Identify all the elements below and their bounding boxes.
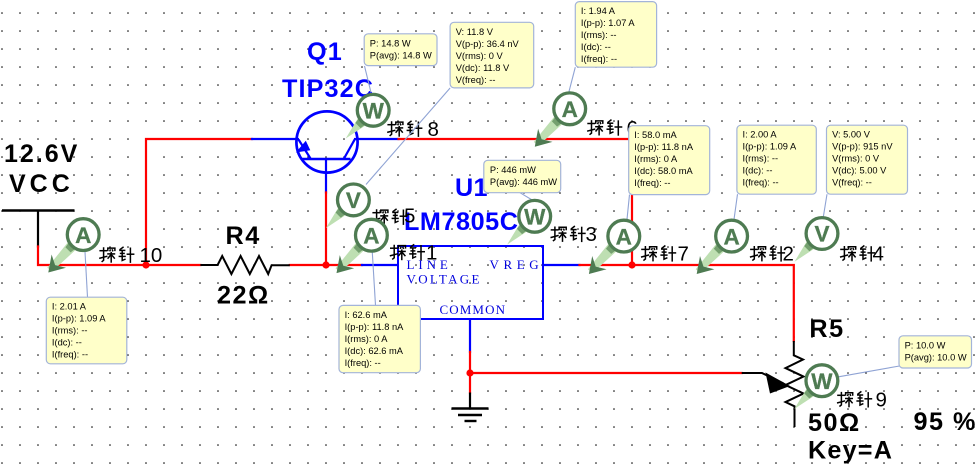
wire: Q1 emitter pin stub xyxy=(252,138,297,140)
node: VCC riser junction xyxy=(142,261,149,268)
leader probe 5 xyxy=(366,88,450,185)
svg-text:I(rms): --: I(rms): -- xyxy=(581,30,617,40)
box probe 2 current xyxy=(737,125,816,194)
leader probe 1 xyxy=(372,252,375,305)
leader probe 10 xyxy=(85,252,88,298)
svg-text:10: 10 xyxy=(140,244,163,267)
wire: Q1 base to rail junction xyxy=(325,193,327,266)
probe A (#6) xyxy=(534,93,586,147)
box probe 3 power xyxy=(484,160,561,192)
svg-text:V(freq): --: V(freq): -- xyxy=(832,178,872,188)
wire: VCC lead black xyxy=(37,212,39,247)
svg-text:R4: R4 xyxy=(226,222,261,250)
Q1 emitter arrow xyxy=(296,141,311,153)
leader probe 9 xyxy=(839,366,900,377)
svg-text:V(p-p): 915 nV: V(p-p): 915 nV xyxy=(832,142,893,152)
svg-text:W: W xyxy=(811,369,833,394)
probe A (#1) xyxy=(336,219,388,273)
node: Q1 base / R4 junction xyxy=(322,261,329,268)
svg-text:I: 2.00 A: I: 2.00 A xyxy=(743,130,778,140)
leader probe 6 xyxy=(569,67,575,91)
regulator U1 LM7805CT xyxy=(398,246,543,319)
probe W (#9) xyxy=(794,365,837,409)
wire: Q1 collector pin stub xyxy=(358,138,399,140)
svg-text:I(freq): --: I(freq): -- xyxy=(743,178,779,188)
svg-text:I(p-p): 1.09 A: I(p-p): 1.09 A xyxy=(743,142,798,152)
svg-text:9: 9 xyxy=(876,388,887,411)
svg-text:I: 2.01 A: I: 2.01 A xyxy=(52,302,87,312)
svg-text:V(p-p): 36.4 nV: V(p-p): 36.4 nV xyxy=(456,39,520,49)
svg-text:A: A xyxy=(562,97,578,122)
label probe 10 xyxy=(99,244,162,267)
box probe 6 current xyxy=(575,2,656,68)
svg-text:I(p-p): 11.8 nA: I(p-p): 11.8 nA xyxy=(345,322,405,332)
svg-text:I(dc): --: I(dc): -- xyxy=(52,338,82,348)
label probe 8 xyxy=(387,118,439,141)
svg-text:V(freq): --: V(freq): -- xyxy=(456,75,496,85)
potentiometer R5 xyxy=(742,341,804,427)
box probe 8 power xyxy=(364,34,437,66)
svg-text:5: 5 xyxy=(404,205,415,228)
box probe 5 voltage xyxy=(450,22,534,88)
svg-text:12.6V: 12.6V xyxy=(4,140,79,168)
svg-text:P(avg): 14.8 W: P(avg): 14.8 W xyxy=(370,50,432,60)
svg-text:A: A xyxy=(363,223,379,248)
svg-text:VOLTAGE: VOLTAGE xyxy=(407,272,482,287)
svg-text:W: W xyxy=(524,205,546,230)
svg-text:V(rms): 0 V: V(rms): 0 V xyxy=(832,154,880,164)
svg-text:4: 4 xyxy=(873,243,884,266)
svg-text:V(rms): 0 V: V(rms): 0 V xyxy=(456,51,504,61)
svg-text:V: 11.8 V: V: 11.8 V xyxy=(456,27,494,37)
svg-text:A: A xyxy=(616,224,632,249)
leader probe 7 xyxy=(627,195,630,220)
svg-text:3: 3 xyxy=(586,223,597,246)
svg-text:I(rms): --: I(rms): -- xyxy=(52,326,88,336)
R5 wiper arrow xyxy=(766,373,791,394)
wire: rail R4 to U1 LINE xyxy=(290,264,362,266)
wire: Q1 base pin stub xyxy=(325,174,327,193)
label probe 3 xyxy=(551,223,597,246)
svg-text:I(freq): --: I(freq): -- xyxy=(634,178,670,188)
svg-text:V: V xyxy=(814,222,829,247)
svg-text:P: 10.0 W: P: 10.0 W xyxy=(905,340,946,350)
wire: output rail to R5 corner xyxy=(580,265,794,341)
svg-text:I(p-p): 1.09 A: I(p-p): 1.09 A xyxy=(52,314,107,324)
svg-text:V: 5.00 V: V: 5.00 V xyxy=(832,130,871,140)
svg-text:50Ω: 50Ω xyxy=(808,409,861,437)
svg-text:P: 446 mW: P: 446 mW xyxy=(490,165,536,175)
node: output junction xyxy=(628,261,635,268)
wire: U1 LINE pin stub xyxy=(362,264,397,266)
box probe 1 current xyxy=(339,305,420,372)
node: common junction xyxy=(466,369,473,376)
label probe 4 xyxy=(840,243,884,266)
svg-text:I(freq): --: I(freq): -- xyxy=(52,350,88,360)
ground xyxy=(452,393,489,422)
svg-text:U1: U1 xyxy=(455,174,488,202)
svg-text:8: 8 xyxy=(428,118,439,141)
probe W (#8) xyxy=(346,94,389,138)
svg-text:2: 2 xyxy=(783,243,794,266)
svg-text:I: 62.6 mA: I: 62.6 mA xyxy=(345,310,388,320)
svg-text:I(dc): 58.0 mA: I(dc): 58.0 mA xyxy=(634,166,693,176)
svg-text:VCC: VCC xyxy=(9,170,74,198)
leader probe 8 xyxy=(365,66,372,93)
svg-text:Key=A: Key=A xyxy=(808,437,893,465)
svg-text:I(rms): --: I(rms): -- xyxy=(743,154,779,164)
leader probe 2 xyxy=(734,194,738,219)
probe V (#5) xyxy=(326,184,369,228)
svg-text:I: 58.0 mA: I: 58.0 mA xyxy=(634,130,677,140)
label probe 5 xyxy=(372,205,415,228)
svg-text:95 %: 95 % xyxy=(914,408,976,436)
svg-text:I(dc): 62.6 mA: I(dc): 62.6 mA xyxy=(345,346,404,356)
svg-text:1: 1 xyxy=(426,241,437,264)
wire: U1 COMMON pin stub xyxy=(469,320,471,352)
svg-text:Q1: Q1 xyxy=(307,38,343,66)
svg-text:A: A xyxy=(723,224,739,249)
svg-text:W: W xyxy=(363,99,385,124)
svg-text:VREG: VREG xyxy=(490,257,544,272)
probe A (#2) xyxy=(696,220,748,274)
svg-text:V: V xyxy=(346,188,361,213)
svg-text:7: 7 xyxy=(678,243,689,266)
svg-text:P(avg): 446 mW: P(avg): 446 mW xyxy=(490,177,557,187)
box probe 9 power xyxy=(899,336,972,368)
wire: U1 VREG pin stub xyxy=(543,264,580,266)
svg-text:V(dc): 11.8 V: V(dc): 11.8 V xyxy=(456,63,510,73)
svg-text:COMMON: COMMON xyxy=(440,302,507,317)
resistor R4 xyxy=(200,256,289,274)
svg-text:R5: R5 xyxy=(809,315,844,343)
wire: top rail left (VCC riser to Q1 emitter) xyxy=(146,139,252,265)
svg-text:I: 1.94 A: I: 1.94 A xyxy=(581,6,616,16)
wire: common node red xyxy=(469,352,471,393)
box probe 7 current xyxy=(629,126,710,195)
svg-text:LM7805C: LM7805C xyxy=(404,208,518,236)
probe A (#10) xyxy=(47,219,99,273)
svg-text:I(freq): --: I(freq): -- xyxy=(581,54,617,64)
label probe 9 xyxy=(837,388,887,411)
svg-text:I(p-p): 1.07 A: I(p-p): 1.07 A xyxy=(581,18,636,28)
wire: wiper wire to R5 xyxy=(470,372,742,374)
box probe 10 current xyxy=(46,297,127,364)
label probe 7 xyxy=(641,243,689,266)
wire: VCC lead red + main rail to R4 xyxy=(38,247,200,266)
transistor Q1 TIP32C (PNP) xyxy=(296,111,358,174)
label probe 2 xyxy=(750,243,794,266)
svg-text:P(avg): 10.0 W: P(avg): 10.0 W xyxy=(905,352,967,362)
label probe 1 xyxy=(390,241,438,264)
leader probe 4 xyxy=(823,194,827,217)
svg-text:I(dc): --: I(dc): -- xyxy=(743,166,773,176)
label probe 6 xyxy=(587,117,638,140)
leader probe 3 xyxy=(520,193,533,201)
svg-text:V(dc): 5.00 V: V(dc): 5.00 V xyxy=(832,166,887,176)
power source VCC 12.6V xyxy=(2,209,75,211)
probe W (#3) xyxy=(507,200,550,244)
probe A (#7) xyxy=(588,220,640,274)
svg-text:I(rms): 0 A: I(rms): 0 A xyxy=(345,334,389,344)
svg-text:I(p-p): 11.8 nA: I(p-p): 11.8 nA xyxy=(634,142,694,152)
box probe 4 voltage xyxy=(827,125,908,194)
svg-text:I(dc): --: I(dc): -- xyxy=(581,42,611,52)
svg-text:I(freq): --: I(freq): -- xyxy=(345,358,381,368)
svg-text:A: A xyxy=(75,223,91,248)
probe V (#4) xyxy=(795,218,838,262)
svg-text:I(rms): 0 A: I(rms): 0 A xyxy=(634,154,678,164)
svg-text:22Ω: 22Ω xyxy=(217,282,270,310)
svg-text:P: 14.8 W: P: 14.8 W xyxy=(370,38,411,48)
wire: top rail right + drop to output junction xyxy=(399,139,633,265)
